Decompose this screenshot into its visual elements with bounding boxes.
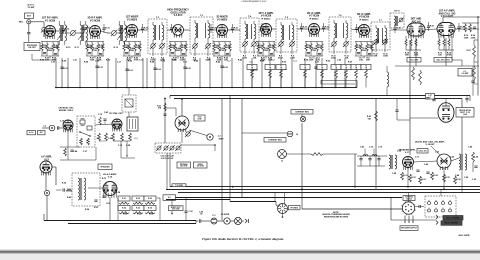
plug contacts — [245, 219, 249, 223]
svg-text:TEST: TEST — [218, 138, 224, 140]
resistor on right edge — [473, 45, 476, 58]
svg-text:5749: 5749 — [198, 118, 202, 121]
bypass capacitor on riser — [60, 67, 63, 68]
wire plate line V2 — [101, 31, 109, 33]
crystal holder box — [127, 117, 138, 131]
junction — [214, 144, 216, 146]
boxed label B+ — [27, 131, 36, 135]
svg-text:B F O: B F O — [394, 11, 400, 13]
wire audio bus — [357, 155, 387, 157]
connector pins below — [404, 216, 413, 223]
wire riser — [280, 58, 282, 88]
capacitor C41 — [103, 119, 106, 120]
bias network under V5 — [213, 42, 231, 59]
resistor R40 — [375, 111, 378, 121]
wire bus B right drop — [469, 96, 471, 102]
tube V1 — [45, 26, 56, 39]
svg-text:100K: 100K — [362, 50, 367, 52]
svg-text:12K: 12K — [270, 47, 274, 49]
capacitor C42 — [70, 150, 73, 151]
wire — [323, 153, 357, 155]
wire — [466, 96, 468, 99]
boxed label on bus — [172, 184, 186, 187]
wire plate line V8 — [370, 29, 372, 31]
svg-text:VOL CONT: VOL CONT — [410, 59, 420, 61]
resistor on bus at x=346 — [341, 65, 351, 88]
wire — [31, 54, 33, 60]
coupling capacitor — [170, 24, 173, 33]
wire plate line V5 — [228, 29, 241, 31]
wire riser — [162, 58, 164, 88]
antenna terminal box — [25, 13, 34, 19]
svg-text:LOW-FREQUENCY OSC: LOW-FREQUENCY OSC — [242, 1, 267, 3]
svg-text:R-61: R-61 — [122, 198, 126, 200]
bypass capacitor on riser — [314, 67, 317, 68]
wire riser — [231, 58, 233, 88]
wire — [282, 214, 284, 217]
coupling capacitor — [82, 24, 85, 33]
svg-text:PHONES: PHONES — [290, 207, 298, 209]
pepper labels under top chain — [40, 59, 353, 64]
wire long vertical x=355 — [354, 154, 356, 187]
wire bottom bus 2 — [68, 223, 196, 225]
svg-text:470K: 470K — [42, 46, 47, 49]
svg-text:V-1 6CB6: V-1 6CB6 — [45, 19, 56, 22]
wire V9 to V10 — [425, 28, 437, 31]
coupling capacitor — [260, 23, 263, 32]
svg-text:S-3: S-3 — [168, 197, 171, 199]
wire long vertical x=302 — [301, 123, 303, 209]
wire right bus 1 — [176, 197, 403, 199]
transformer T14 — [459, 154, 467, 170]
wire riser — [79, 58, 81, 88]
pepper labels crystal section — [60, 111, 139, 153]
capacitor C61 — [465, 99, 468, 100]
transformer T4 shield (dashed) — [240, 18, 259, 52]
wire — [373, 149, 375, 157]
wire riser — [107, 58, 109, 88]
switch box S3 — [163, 195, 176, 201]
capacitor C40 — [58, 126, 59, 129]
bypass capacitor on riser — [125, 69, 128, 70]
resistor — [419, 176, 422, 184]
wire — [171, 200, 173, 206]
bias network under V1 — [41, 42, 59, 59]
resistor on bus at x=322 — [317, 65, 327, 88]
wire riser — [304, 58, 306, 88]
svg-text:V-2 6CB6: V-2 6CB6 — [90, 19, 101, 22]
svg-text:MODEL ONLY: MODEL ONLY — [59, 110, 74, 112]
wire long vertical x=376 — [375, 99, 377, 189]
coupling capacitor — [231, 24, 234, 33]
wire — [451, 158, 459, 161]
coupling capacitor — [322, 23, 325, 32]
wire long vertical x=165 — [164, 99, 166, 144]
wire plate line V7 — [320, 28, 330, 30]
bypass capacitor on riser — [343, 66, 346, 67]
heater HR1 — [125, 99, 133, 107]
transformer T7 windings — [373, 25, 388, 52]
boxed label below V9 — [407, 58, 421, 63]
wire — [104, 120, 106, 124]
transformer T4 windings — [242, 21, 257, 54]
boxed label RETRANS — [177, 162, 191, 168]
boxed label CONTROL CABLE — [403, 196, 415, 201]
resistor on bus at x=336 — [331, 65, 341, 88]
oven housing (dashed) — [122, 95, 136, 112]
resistor R45 — [87, 138, 90, 145]
svg-text:68K: 68K — [130, 50, 134, 52]
svg-text:ON-OFF: ON-OFF — [28, 47, 36, 49]
svg-text:AGO 2557B: AGO 2557B — [458, 234, 470, 237]
wire — [107, 32, 111, 34]
svg-text:12K: 12K — [253, 58, 257, 60]
wire plate line V1 — [56, 30, 67, 32]
trimmer C2 — [41, 27, 47, 33]
wire long vertical x=230 — [229, 96, 231, 200]
coupling capacitor — [118, 25, 121, 34]
svg-text:CRYSTAL OSC: CRYSTAL OSC — [58, 106, 74, 109]
wire — [169, 153, 171, 187]
resistor R47b — [98, 133, 101, 141]
wire bottom bus 1 — [44, 220, 196, 222]
svg-text:IF 455KC: IF 455KC — [261, 17, 271, 20]
wire — [390, 197, 392, 220]
wire — [185, 197, 187, 211]
boxed label SPEAKER — [98, 164, 112, 170]
bypass capacitor on riser — [279, 68, 282, 69]
svg-text:0.5 AMP: 0.5 AMP — [462, 72, 470, 75]
wire — [195, 220, 197, 223]
wire — [408, 193, 410, 202]
svg-text:600 OHM: 600 OHM — [197, 165, 204, 167]
wire long vertical x=410 — [409, 40, 411, 155]
filter cell 3 — [377, 156, 380, 166]
wire — [391, 219, 436, 221]
wire — [230, 220, 234, 222]
tube V15 a-f ampl — [40, 161, 52, 175]
wire — [60, 159, 96, 161]
svg-text:V-18 6N7: V-18 6N7 — [425, 144, 435, 146]
svg-text:Figure 106. Radio Receiver R-: Figure 106. Radio Receiver R-110/VRC-1, … — [202, 238, 284, 241]
svg-text:150K: 150K — [136, 47, 141, 49]
wire riser — [142, 58, 144, 88]
svg-text:470K: 470K — [356, 46, 361, 49]
wire riser — [154, 58, 156, 88]
svg-text:100K: 100K — [170, 47, 175, 49]
svg-text:470K: 470K — [447, 53, 452, 56]
boxed label RECEIVER SUPPLY — [400, 226, 418, 231]
svg-text:600 OHM: 600 OHM — [172, 209, 180, 211]
wire — [357, 165, 385, 167]
wire right edge drop — [477, 17, 479, 96]
svg-text:V-8 6CB6: V-8 6CB6 — [359, 16, 370, 19]
wire — [59, 127, 63, 129]
switch S2 — [79, 131, 91, 137]
wire — [461, 170, 463, 193]
boxed label CURRENT REG — [264, 138, 286, 143]
wire — [67, 147, 69, 160]
resistor R-66 with label box — [144, 206, 156, 214]
svg-text:R-63: R-63 — [148, 198, 152, 200]
wire — [302, 208, 402, 210]
wire riser — [221, 58, 223, 88]
resistor on bus at x=281 — [276, 65, 286, 88]
wire bus C — [174, 98, 462, 100]
wire T-chain links — [167, 29, 173, 31]
wire — [95, 124, 112, 125]
transformer T7 shield (dashed) — [371, 22, 390, 50]
bypass capacitor on riser — [95, 66, 98, 67]
wire — [407, 168, 409, 187]
svg-text:33K: 33K — [359, 60, 363, 62]
connector pins terminal strip (dashed) — [425, 196, 456, 217]
wire — [229, 200, 231, 202]
svg-text:33K: 33K — [345, 58, 349, 60]
r-f transformer — [57, 21, 67, 45]
plug P2 phones — [278, 204, 288, 214]
wire — [395, 65, 479, 67]
wire — [66, 32, 70, 34]
ballast lamp I3 — [278, 150, 287, 159]
svg-text:68K: 68K — [374, 56, 378, 58]
resistor on right edge 2 — [473, 66, 476, 80]
resistor — [454, 176, 457, 184]
wire — [126, 141, 128, 156]
connector J6 — [401, 201, 416, 216]
coupling capacitor — [62, 25, 65, 34]
svg-text:100K: 100K — [464, 37, 469, 39]
coupling capacitor — [141, 24, 144, 33]
svg-text:CALL SIG: CALL SIG — [418, 149, 427, 152]
wire riser — [251, 58, 253, 88]
wire — [473, 62, 475, 66]
resistor R47 — [64, 148, 67, 156]
wire — [45, 173, 47, 190]
twin tube V16 output — [103, 182, 117, 198]
wire — [60, 146, 80, 148]
wire riser — [209, 58, 211, 88]
plug contacts — [436, 215, 438, 225]
small parts row — [63, 188, 72, 191]
svg-text:100K: 100K — [48, 50, 53, 52]
boxed label CALL CHANNEL — [443, 216, 463, 221]
svg-text:CALL CHANNEL: CALL CHANNEL — [446, 216, 461, 219]
trimmer C46 — [156, 145, 162, 151]
wire — [157, 197, 160, 199]
svg-text:220K: 220K — [331, 58, 336, 60]
svg-text:CABLE: CABLE — [406, 197, 413, 200]
volume control network right of V10 — [462, 23, 479, 32]
svg-text:P-3: P-3 — [213, 215, 216, 217]
wire — [43, 32, 45, 37]
bypass capacitor on riser — [220, 66, 223, 67]
wire — [364, 149, 366, 157]
value labels — [124, 44, 141, 62]
svg-text:220K: 220K — [368, 47, 373, 49]
output terminal — [44, 190, 49, 195]
svg-text:AUDIO AND CALL SIG AMPL: AUDIO AND CALL SIG AMPL — [415, 141, 445, 144]
output transformer shield (dashed) — [72, 173, 100, 206]
plug P3 — [211, 218, 217, 224]
bias network under V2 — [86, 42, 104, 59]
boxed label CURRENT REG 2 — [291, 110, 313, 115]
value labels — [306, 45, 323, 62]
svg-text:600 OHM: 600 OHM — [180, 165, 187, 167]
svg-text:220K: 220K — [471, 37, 476, 39]
wire — [440, 189, 442, 196]
wire audio ground bus 3 — [178, 192, 480, 194]
wire — [396, 99, 398, 110]
transformer T3 windings — [192, 20, 211, 56]
wire — [217, 220, 224, 222]
bias network under V4 — [169, 42, 187, 59]
wire — [181, 130, 183, 143]
boxed label below V10 — [434, 58, 452, 63]
svg-text:V-16: V-16 — [108, 176, 113, 178]
right edge parts — [472, 152, 478, 172]
wire — [472, 66, 474, 81]
b-f-o coil shield (dashed) — [390, 13, 404, 28]
transformer T6 windings — [331, 20, 349, 54]
tube V17 speaker ampl — [403, 157, 414, 170]
wire riser — [344, 58, 346, 88]
trimmer capacitor — [111, 30, 117, 36]
coupling capacitor — [300, 23, 303, 32]
svg-text:V-6 6CB6: V-6 6CB6 — [261, 15, 272, 18]
resistor R44 — [80, 138, 83, 145]
svg-text:MAIN CHANNEL: MAIN CHANNEL — [445, 222, 460, 225]
svg-text:33K: 33K — [312, 50, 316, 52]
resistor R48 — [112, 133, 115, 141]
wire — [415, 206, 419, 208]
wire — [88, 187, 103, 189]
svg-text:R-64: R-64 — [122, 207, 126, 210]
junction — [164, 98, 166, 100]
tube V14 master oscillator — [175, 116, 189, 132]
boxed label AUDIO 600 — [194, 162, 208, 168]
oscillator trimmer bank (dashed) — [155, 143, 181, 153]
wire — [242, 220, 244, 222]
wire bus A right detour — [321, 81, 357, 88]
r-f transformer — [117, 21, 127, 45]
receiver on-off box — [24, 43, 40, 51]
resistor — [431, 172, 434, 180]
svg-text:TO ANT: TO ANT — [28, 6, 36, 9]
wire — [410, 117, 438, 119]
pin contact — [442, 200, 445, 205]
resistor — [409, 174, 412, 182]
bias network under V10 — [438, 36, 454, 50]
value labels — [42, 45, 59, 62]
wire — [95, 147, 97, 160]
wire riser — [55, 58, 57, 88]
wire drop from V9 — [415, 38, 417, 66]
capacitor C55 — [419, 205, 420, 208]
junction — [477, 16, 479, 18]
resistor R-64 with label box — [118, 206, 130, 214]
capacitor — [94, 200, 97, 201]
trimmer C45 — [185, 131, 191, 137]
wire — [43, 31, 46, 37]
tube V19 regulator — [438, 103, 454, 123]
wire audio ground bus 1 — [170, 186, 480, 188]
coupling capacitor — [393, 24, 396, 33]
resistor on bus at x=366 — [361, 65, 371, 88]
wire — [120, 141, 122, 147]
resistor R30 — [311, 153, 323, 156]
svg-text:RESISTORS ARE IN OHMS: RESISTORS ARE IN OHMS — [324, 216, 349, 219]
wire riser — [67, 58, 69, 88]
value labels — [87, 44, 104, 62]
wire — [275, 202, 277, 205]
svg-text:V-5 6BE6: V-5 6BE6 — [217, 18, 228, 21]
wire long vertical x=222 — [221, 99, 223, 220]
wire long vertical x=275 — [274, 193, 276, 202]
tube V13 xtal osc — [112, 119, 122, 131]
bias network under V8 — [355, 42, 373, 59]
svg-text:R-62: R-62 — [136, 198, 140, 200]
svg-text:470K: 470K — [99, 46, 104, 49]
lamp I4 — [300, 116, 305, 121]
wire long vertical x=242 — [241, 99, 243, 197]
trimmer capacitor — [70, 30, 76, 36]
neon lamp I2 — [287, 131, 293, 137]
crystal Y2 — [87, 126, 92, 130]
svg-text:CURRENT REG: CURRENT REG — [295, 111, 309, 113]
crystal input jack — [49, 125, 55, 131]
bias network under V7 — [305, 42, 323, 59]
capacitor — [102, 196, 105, 197]
svg-text:IF 455KC: IF 455KC — [309, 17, 319, 20]
value labels — [214, 44, 231, 62]
pin contact — [442, 208, 445, 213]
resistor R-65 with label box — [132, 206, 144, 214]
resistor R50 — [129, 133, 132, 141]
value labels — [356, 44, 373, 62]
crystal switch housing (dashed) — [77, 116, 95, 147]
wire drop from V10 — [445, 38, 447, 66]
resistor R-61 with label box — [118, 196, 130, 204]
pin contact — [449, 200, 452, 205]
tube V2 — [90, 26, 101, 39]
bias network under V6 — [257, 42, 275, 59]
wire riser — [315, 58, 317, 88]
wire — [52, 166, 56, 168]
wire bottom bus 1b — [196, 220, 198, 222]
tube V18 audio output — [437, 154, 451, 170]
svg-text:V-4 6C4: V-4 6C4 — [174, 14, 183, 17]
wire bus B — [170, 95, 470, 97]
boxed label FUSE — [458, 69, 472, 77]
wire antenna lead — [28, 24, 30, 32]
transformer T12 windings — [78, 178, 86, 200]
wire bus A (ground return) — [55, 87, 357, 89]
wire — [284, 193, 286, 204]
wire riser — [242, 58, 244, 88]
pin contact — [428, 208, 431, 213]
wire V10 out — [455, 28, 462, 30]
filter cell 2 — [368, 156, 371, 166]
svg-text:RECEIVER SUPPLY: RECEIVER SUPPLY — [401, 228, 418, 230]
wire — [117, 198, 119, 221]
r-f transformer — [78, 21, 88, 45]
wire V10 plate to edge — [442, 17, 444, 23]
wire — [175, 108, 177, 116]
coupling capacitor — [102, 24, 105, 33]
boxed label AVC — [38, 131, 46, 135]
svg-text:100K: 100K — [226, 47, 231, 49]
